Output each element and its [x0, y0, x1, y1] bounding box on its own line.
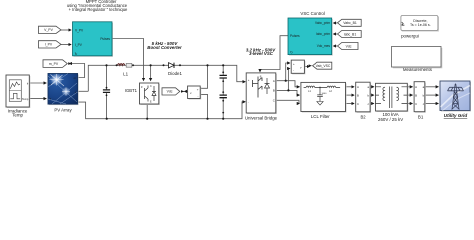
- svg-text:V_PV: V_PV: [75, 28, 84, 32]
- svg-text:Vabc_prim: Vabc_prim: [315, 21, 330, 25]
- svg-text:↻: ↻: [290, 51, 293, 55]
- svg-text:I_PV: I_PV: [45, 43, 53, 47]
- svg-text:V_PV: V_PV: [44, 28, 53, 32]
- svg-text:+ Integral Regulator ” techniq: + Integral Regulator ” technique: [69, 7, 128, 12]
- svg-text:C: C: [357, 102, 359, 106]
- svg-text:-: -: [248, 100, 249, 104]
- svg-text:↻: ↻: [75, 52, 78, 56]
- svg-text:I_PV: I_PV: [75, 43, 83, 47]
- svg-text:C: C: [415, 102, 417, 106]
- svg-text:L1: L1: [123, 72, 128, 77]
- svg-text:+: +: [197, 88, 199, 92]
- svg-text:Vdc: Vdc: [167, 90, 173, 94]
- svg-text:B: B: [273, 89, 275, 93]
- svg-text:Ts = 1e-06 s.: Ts = 1e-06 s.: [410, 23, 431, 27]
- svg-text:Iabc_B1: Iabc_B1: [344, 32, 357, 36]
- svg-text:Ir: Ir: [50, 82, 52, 86]
- svg-text:Vdc_mes: Vdc_mes: [317, 44, 331, 48]
- svg-text:Temp: Temp: [22, 97, 29, 101]
- svg-text:Pulses: Pulses: [100, 37, 110, 41]
- svg-text:260V / 25 kV: 260V / 25 kV: [378, 117, 403, 122]
- svg-text:1000: 1000: [322, 93, 328, 95]
- svg-text:-: -: [293, 69, 294, 73]
- svg-text:B: B: [415, 94, 417, 98]
- svg-text:A: A: [357, 85, 359, 89]
- svg-text:-: -: [76, 101, 77, 105]
- svg-text:B2: B2: [360, 115, 366, 120]
- svg-text:IGBT1: IGBT1: [125, 88, 138, 93]
- svg-text:m_PV: m_PV: [49, 62, 59, 66]
- svg-text:VSC Control: VSC Control: [300, 11, 324, 16]
- svg-text:PV Array: PV Array: [54, 108, 72, 113]
- svg-text:+: +: [248, 78, 250, 82]
- svg-text:A: A: [273, 79, 275, 83]
- svg-text:Vdc: Vdc: [346, 44, 352, 48]
- svg-text:B1: B1: [418, 115, 424, 120]
- svg-text:Vab_VSC: Vab_VSC: [316, 64, 331, 68]
- svg-text:C: C: [273, 99, 275, 103]
- svg-text:Temp: Temp: [12, 113, 23, 118]
- svg-text:C: C: [150, 85, 152, 88]
- svg-text:+: +: [75, 90, 77, 94]
- svg-text:powergui: powergui: [401, 34, 419, 39]
- svg-text:3-level VSC: 3-level VSC: [249, 51, 274, 56]
- svg-text:-: -: [198, 94, 199, 98]
- svg-text:B: B: [357, 94, 359, 98]
- svg-text:A: A: [415, 85, 417, 89]
- svg-text:Pulses: Pulses: [290, 34, 300, 38]
- svg-text:Diode1: Diode1: [168, 71, 182, 76]
- svg-text:Vabc_B1: Vabc_B1: [343, 21, 357, 25]
- svg-text:Utility Grid: Utility Grid: [444, 113, 468, 118]
- svg-text:LCL Filter: LCL Filter: [311, 114, 330, 119]
- svg-text:Boost Converter: Boost Converter: [147, 45, 182, 50]
- svg-text:Iabc_prim: Iabc_prim: [316, 32, 330, 36]
- svg-text:Universal Bridge: Universal Bridge: [245, 115, 278, 120]
- svg-text:+: +: [293, 62, 295, 66]
- svg-text:Ir: Ir: [27, 81, 29, 85]
